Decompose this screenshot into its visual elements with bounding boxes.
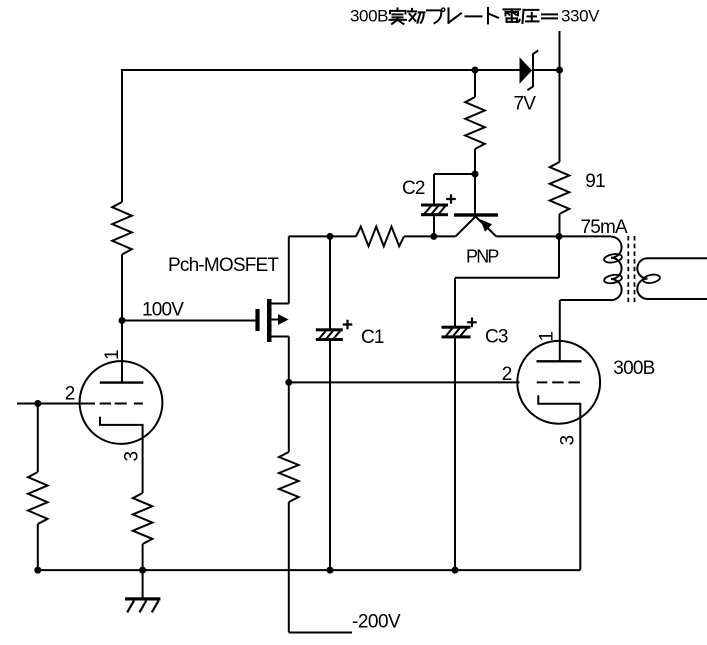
svg-text:Pch-MOSFET: Pch-MOSFET	[168, 255, 279, 276]
svg-text:PNP: PNP	[466, 247, 499, 267]
svg-text:1: 1	[537, 332, 558, 342]
svg-text:91: 91	[585, 171, 605, 192]
svg-text:C1: C1	[361, 327, 384, 348]
svg-text:1: 1	[102, 350, 123, 360]
svg-text:300B: 300B	[350, 7, 388, 26]
svg-text:330V: 330V	[561, 7, 600, 26]
svg-text:300B: 300B	[613, 358, 654, 379]
svg-text:C2: C2	[402, 178, 425, 199]
svg-text:7V: 7V	[514, 94, 537, 115]
svg-text:C3: C3	[485, 327, 508, 348]
svg-text:2: 2	[502, 364, 512, 385]
svg-text:3: 3	[122, 452, 143, 462]
svg-text:75mA: 75mA	[581, 217, 629, 238]
svg-text:-200V: -200V	[352, 612, 401, 633]
svg-text:3: 3	[557, 436, 578, 446]
svg-text:2: 2	[65, 383, 75, 404]
svg-text:100V: 100V	[142, 300, 184, 321]
